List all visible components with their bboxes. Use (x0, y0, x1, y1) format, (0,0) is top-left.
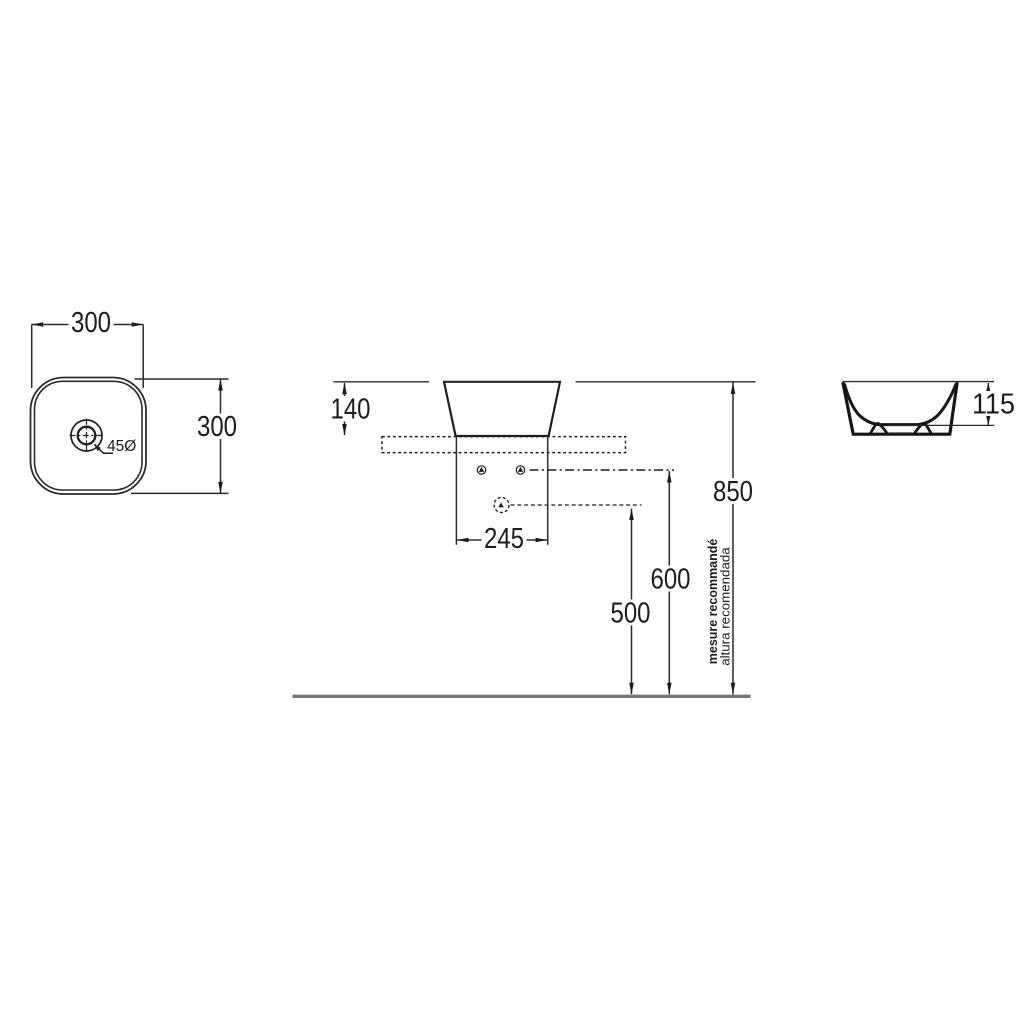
svg-text:300: 300 (71, 307, 111, 339)
rim line (843, 381, 995, 383)
arrow down of 600 (667, 683, 672, 695)
left fixing hole (477, 466, 485, 474)
dimension line 300 (right height) (131, 379, 229, 493)
arrow right of 300 top (132, 322, 144, 327)
bowl inner profile (844, 384, 956, 425)
dimension 600 (668, 471, 670, 694)
arrow right of 245 (536, 538, 548, 543)
basin front trapezoid (444, 382, 560, 436)
top view basin inner outline (35, 381, 143, 490)
label 245 (482, 525, 527, 551)
label 500 (608, 600, 653, 626)
label 300 (right) (195, 414, 240, 440)
dimension 850 (732, 383, 734, 695)
drain inner circle (78, 427, 96, 445)
svg-text:245: 245 (484, 523, 524, 555)
template right vertical line (547, 437, 549, 545)
arrow down of 300 right (218, 482, 223, 494)
template left vertical line (455, 437, 457, 545)
svg-text:300: 300 (197, 411, 237, 443)
arrow left of 245 (457, 538, 469, 543)
arrow up of 600 (667, 471, 672, 483)
arrow down of 115 (986, 415, 991, 424)
arrow up of 300 right (218, 379, 223, 391)
top view basin outer outline (31, 378, 147, 495)
drain centerlines (70, 419, 105, 453)
right foot bump (914, 423, 932, 434)
drain outer circle (71, 420, 102, 451)
svg-text:850: 850 (713, 476, 753, 508)
arrow up of 115 (986, 383, 991, 392)
arrow up of 850 (731, 383, 736, 395)
dashed line from tap hole (511, 504, 642, 506)
dimension 140 (344, 383, 346, 435)
dimension line 300 (top width) (32, 325, 144, 389)
svg-text:45Ø: 45Ø (107, 438, 136, 455)
right fixing hole (516, 466, 524, 474)
countertop dashed rectangle (382, 437, 626, 453)
svg-text:140: 140 (331, 394, 371, 426)
left foot bump (870, 423, 888, 434)
svg-text:115: 115 (972, 388, 1015, 420)
dimension 500 (631, 509, 633, 695)
svg-text:500: 500 (611, 598, 651, 630)
floor line (293, 695, 751, 698)
arrow left of 300 top (32, 322, 44, 327)
svg-text:600: 600 (651, 563, 691, 595)
arrow down of 850 (731, 683, 736, 695)
arrow down of 140 (342, 424, 347, 436)
drain level line (889, 424, 995, 426)
top reference line left segment (334, 381, 430, 383)
arrow up of 500 (629, 509, 634, 521)
svg-text:altura recomendada: altura recomendada (719, 547, 733, 666)
label 140 (329, 396, 373, 422)
lower thin line (889, 432, 912, 434)
label 600 (648, 566, 693, 592)
arrow up of 140 (342, 383, 347, 395)
label 300 (top) (69, 310, 114, 336)
dimension 245 (456, 539, 547, 541)
tap hole dashed circle (494, 498, 509, 513)
dimension 115 (987, 383, 989, 425)
top reference line right segment (576, 381, 756, 383)
bowl outer profile (843, 382, 957, 434)
leader line to 45Ø (95, 445, 114, 454)
label 850 (711, 478, 756, 504)
leader arrowhead (94, 444, 101, 451)
label 115 (972, 391, 1013, 416)
dash-dot line from fixing holes (530, 469, 675, 471)
basin front top edge (444, 381, 560, 383)
arrow down of 500 (629, 683, 634, 695)
